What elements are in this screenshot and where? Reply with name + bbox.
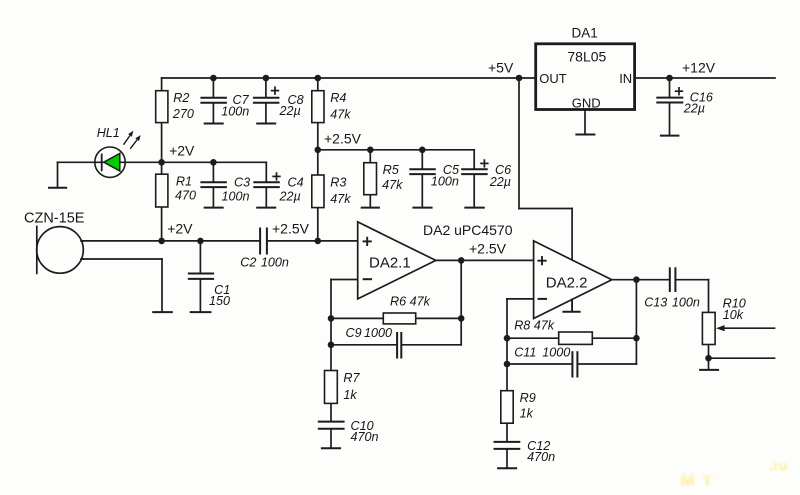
svg-text:47k: 47k bbox=[330, 192, 351, 206]
svg-text:+12V: +12V bbox=[682, 59, 716, 75]
svg-text:C2: C2 bbox=[240, 256, 256, 270]
svg-text:DA2 uPC4570: DA2 uPC4570 bbox=[423, 222, 513, 238]
svg-text:CZN-15E: CZN-15E bbox=[24, 210, 85, 226]
svg-text:C11: C11 bbox=[514, 346, 536, 360]
svg-text:DA2.1: DA2.1 bbox=[369, 255, 411, 272]
svg-text:+2V: +2V bbox=[169, 142, 195, 158]
svg-text:47k: 47k bbox=[382, 178, 403, 192]
svg-text:DA2.2: DA2.2 bbox=[546, 274, 588, 291]
svg-text:47k: 47k bbox=[330, 108, 351, 122]
svg-text:470n: 470n bbox=[527, 450, 555, 464]
svg-text:22µ: 22µ bbox=[489, 175, 511, 189]
svg-text:1000: 1000 bbox=[364, 326, 392, 340]
svg-text:470: 470 bbox=[175, 189, 196, 203]
svg-text:MY: MY bbox=[681, 470, 721, 489]
svg-text:1k: 1k bbox=[520, 407, 534, 421]
svg-text:R6 47k: R6 47k bbox=[390, 295, 431, 309]
svg-text:GND: GND bbox=[572, 96, 601, 111]
svg-text:R7: R7 bbox=[343, 371, 360, 385]
svg-text:22µ: 22µ bbox=[279, 190, 301, 204]
svg-text:+2.5V: +2.5V bbox=[469, 241, 507, 257]
svg-text:OUT: OUT bbox=[539, 71, 567, 86]
svg-text:C3: C3 bbox=[234, 175, 250, 189]
svg-text:78L05: 78L05 bbox=[567, 49, 606, 65]
svg-text:R3: R3 bbox=[330, 176, 346, 190]
svg-text:IN: IN bbox=[619, 71, 632, 86]
svg-text:R9: R9 bbox=[520, 391, 536, 405]
svg-text:R8 47k: R8 47k bbox=[514, 319, 555, 333]
svg-text:270: 270 bbox=[172, 107, 194, 121]
svg-text:10k: 10k bbox=[723, 308, 744, 322]
svg-text:R4: R4 bbox=[330, 91, 346, 105]
svg-text:150: 150 bbox=[209, 294, 230, 308]
svg-text:22µ: 22µ bbox=[279, 104, 301, 118]
svg-text:+2.5V: +2.5V bbox=[272, 221, 310, 237]
svg-text:.ru: .ru bbox=[770, 457, 788, 473]
svg-text:22µ: 22µ bbox=[683, 102, 705, 116]
svg-text:R2: R2 bbox=[173, 91, 189, 105]
svg-text:470n: 470n bbox=[351, 430, 379, 444]
svg-text:R1: R1 bbox=[176, 174, 192, 188]
svg-text:100n: 100n bbox=[431, 175, 459, 189]
svg-text:+2V: +2V bbox=[167, 221, 193, 237]
svg-text:+2.5V: +2.5V bbox=[324, 130, 362, 146]
svg-text:100n: 100n bbox=[261, 256, 289, 270]
svg-text:100n: 100n bbox=[221, 104, 249, 118]
svg-text:100n: 100n bbox=[222, 190, 250, 204]
svg-text:C13: C13 bbox=[644, 296, 667, 310]
svg-text:HL1: HL1 bbox=[97, 126, 120, 140]
svg-text:1000: 1000 bbox=[542, 346, 570, 360]
svg-text:1k: 1k bbox=[343, 388, 357, 402]
svg-text:+5V: +5V bbox=[488, 59, 514, 75]
svg-text:C4: C4 bbox=[288, 175, 304, 189]
svg-text:C9: C9 bbox=[346, 326, 362, 340]
svg-text:100n: 100n bbox=[672, 296, 700, 310]
svg-text:R5: R5 bbox=[383, 163, 400, 177]
svg-text:DA1: DA1 bbox=[572, 26, 598, 41]
